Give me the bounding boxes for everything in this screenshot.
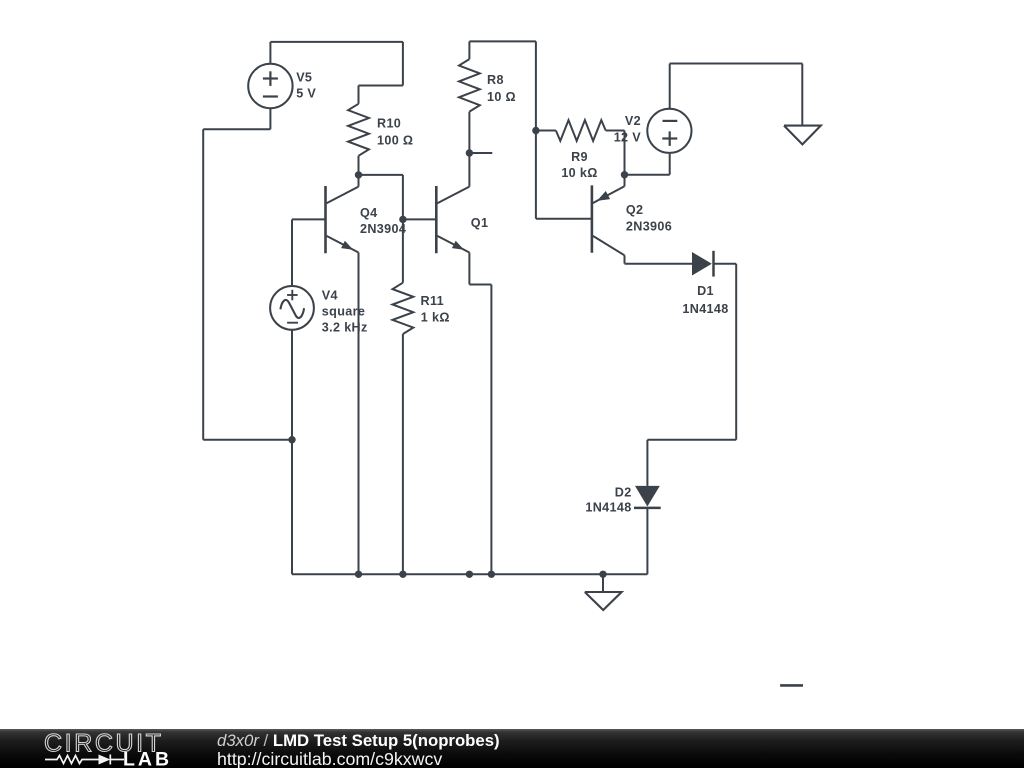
wire down to rail bbox=[490, 285, 492, 575]
transistor Q1 bbox=[435, 186, 438, 253]
ground bottom bbox=[585, 592, 622, 610]
node rail junction Q1 emitter bbox=[488, 571, 495, 578]
svg-text:D1: D1 bbox=[697, 284, 714, 298]
wire to D1 anode bbox=[625, 263, 693, 265]
wire bottom ground rail bbox=[292, 573, 647, 575]
svg-text:V4: V4 bbox=[322, 288, 338, 302]
svg-text:10 Ω: 10 Ω bbox=[487, 90, 516, 104]
wire V2 top lead bbox=[669, 64, 671, 109]
wire top to ground bbox=[670, 63, 803, 65]
ground top-right bbox=[784, 126, 821, 145]
svg-text:square: square bbox=[322, 304, 365, 318]
node junction Q1 base / R11 bbox=[399, 216, 406, 223]
wire left rail down bbox=[202, 129, 204, 439]
voltage source V4 (function gen) bbox=[270, 286, 314, 330]
node junction R10 / Q4 collector bbox=[355, 171, 362, 178]
svg-text:R10: R10 bbox=[377, 117, 401, 131]
svg-text:1 kΩ: 1 kΩ bbox=[421, 311, 450, 325]
voltage source V2 bbox=[647, 109, 691, 153]
wire Q2 base bbox=[536, 218, 592, 220]
CircuitLab logo bbox=[42, 731, 212, 767]
wire right to V4- node bbox=[203, 439, 292, 441]
svg-text:Q2: Q2 bbox=[626, 203, 644, 217]
wire top rail V5 to R10 branch bbox=[270, 41, 403, 43]
svg-text:10 kΩ: 10 kΩ bbox=[561, 166, 597, 180]
wire Q2 collector down bbox=[624, 255, 626, 263]
wire Q4 emitter to ground rail bbox=[358, 253, 360, 575]
wire left to D2 bbox=[647, 439, 736, 441]
resistor R9 bbox=[556, 120, 606, 141]
wire D2 anode lead bbox=[646, 440, 648, 486]
wire R9 right lead bbox=[606, 130, 625, 132]
wire R8 top lead bbox=[468, 41, 470, 59]
svg-text:1N4148: 1N4148 bbox=[682, 302, 728, 316]
wire R10 bottom lead bbox=[358, 156, 360, 175]
wire V5 top lead bbox=[269, 42, 271, 64]
byline bbox=[217, 731, 500, 751]
wire D2 cathode to rail bbox=[646, 508, 648, 575]
wire down from top rail bbox=[402, 42, 404, 86]
resistor R11 bbox=[393, 283, 414, 334]
svg-text:V2: V2 bbox=[625, 114, 641, 128]
wire R8 bottom to Q1 collector bbox=[468, 112, 470, 187]
wire left to R10 branch bbox=[359, 85, 403, 87]
wire down to Q2 emitter node bbox=[624, 131, 626, 175]
svg-text:5 V: 5 V bbox=[296, 87, 316, 101]
node junction V2+ / R9 / Q2 emitter bbox=[621, 171, 628, 178]
wire Q1 emitter down bbox=[468, 253, 470, 285]
transistor Q2 2N3906 bbox=[591, 185, 594, 252]
wire right branch down to Q2 base bbox=[535, 41, 537, 218]
svg-text:3.2 kHz: 3.2 kHz bbox=[322, 320, 368, 334]
svg-text:2N3906: 2N3906 bbox=[626, 220, 672, 234]
wire stub bbox=[469, 152, 492, 154]
node rail junction bbox=[466, 571, 473, 578]
wire top to R9 branch bbox=[469, 40, 536, 42]
svg-text:12 V: 12 V bbox=[614, 130, 642, 144]
diode D2 1N4148 bbox=[635, 486, 660, 507]
wire V2 bottom lead bbox=[669, 154, 671, 175]
svg-text:LAB: LAB bbox=[123, 749, 172, 768]
resistor R10 bbox=[348, 104, 369, 156]
node rail junction R11 bbox=[399, 571, 406, 578]
wire to Q2 emitter node bbox=[625, 174, 670, 176]
wire V4 top lead bbox=[291, 219, 293, 286]
wire left bbox=[203, 128, 270, 130]
svg-text:R11: R11 bbox=[421, 294, 444, 308]
wire R9 left lead bbox=[536, 130, 556, 132]
node junction V4- / V5- bbox=[288, 436, 295, 443]
svg-text:D2: D2 bbox=[615, 486, 632, 500]
wire R11 bottom to rail bbox=[402, 334, 404, 574]
footer bar bbox=[0, 729, 1024, 768]
svg-text:100 Ω: 100 Ω bbox=[377, 133, 413, 147]
node R8 / Q1 collector probe stub bbox=[466, 149, 473, 156]
wire R11 top lead bbox=[402, 219, 404, 282]
wire R10 top lead bbox=[358, 86, 360, 104]
svg-text:2N3904: 2N3904 bbox=[360, 222, 406, 236]
wire down right side bbox=[735, 264, 737, 440]
diode D1 1N4148 bbox=[692, 252, 712, 276]
svg-text:Q1: Q1 bbox=[471, 216, 489, 230]
wire V5 bottom lead bbox=[269, 108, 271, 129]
wire down to Q1 base node bbox=[402, 175, 404, 220]
wire ground stub bbox=[602, 574, 604, 592]
node rail junction Q4 emitter bbox=[355, 571, 362, 578]
svg-text:V5: V5 bbox=[296, 71, 312, 85]
svg-text:Q4: Q4 bbox=[360, 206, 378, 220]
resistor R8 bbox=[459, 59, 480, 112]
url bbox=[217, 749, 442, 770]
wire V4 bottom lead to rail bbox=[291, 330, 293, 574]
svg-text:R9: R9 bbox=[571, 150, 588, 164]
svg-text:R8: R8 bbox=[487, 73, 504, 87]
node R9 left junction bbox=[532, 127, 539, 134]
transistor Q4 2N3904 bbox=[324, 186, 327, 253]
wire jog right bbox=[469, 284, 491, 286]
svg-text:1N4148: 1N4148 bbox=[585, 501, 631, 515]
wire node to Q1-base branch bbox=[359, 174, 403, 176]
wire to Q1 base bbox=[403, 218, 436, 220]
voltage source V5 bbox=[248, 64, 292, 108]
wire D1 cathode lead bbox=[714, 263, 737, 265]
node rail junction ground bbox=[599, 571, 606, 578]
wire down to ground symbol bbox=[801, 64, 803, 126]
wire stray segment bbox=[780, 684, 803, 687]
